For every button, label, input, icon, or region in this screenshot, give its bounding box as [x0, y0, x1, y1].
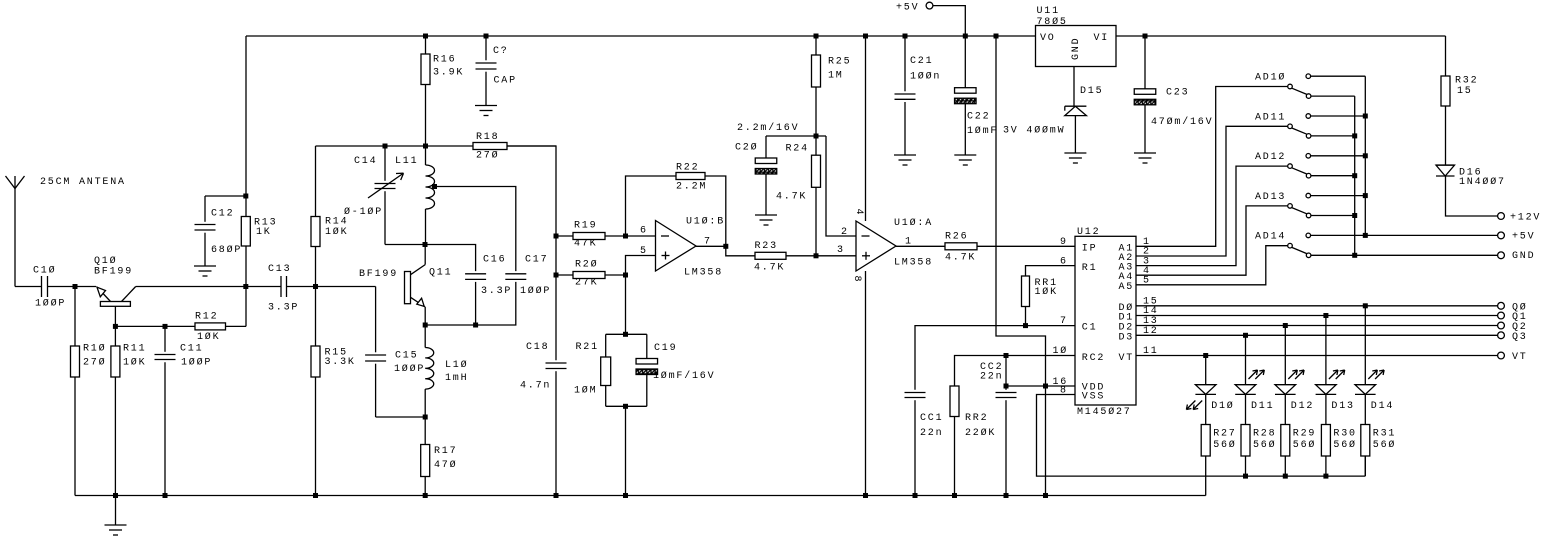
- capacitor C? (CAP): [485, 36, 487, 60]
- wire output row QØ: [1136, 305, 1498, 307]
- svg-text:1ØØP: 1ØØP: [394, 363, 425, 375]
- wire AD11 top contact to bus: [1311, 115, 1366, 117]
- svg-text:VO: VO: [1040, 33, 1056, 44]
- switch AD11 top contact: [1306, 114, 1311, 119]
- node rail/RR2: [952, 493, 957, 498]
- switch AD14 common pole: [1288, 243, 1293, 248]
- node bus2/AD11 bottom: [1352, 133, 1357, 138]
- antenna: [6, 176, 25, 189]
- resistor R11: [114, 345, 116, 347]
- wire C12 top: [205, 195, 246, 197]
- node junction rail/op-amp pin4: [863, 34, 868, 39]
- switch AD13 top contact: [1306, 193, 1311, 198]
- switch AD14 bottom contact: [1306, 253, 1311, 258]
- switch AD11 blade: [1292, 128, 1307, 134]
- node rail/C11: [163, 493, 168, 498]
- terminal +5V top circle: [926, 2, 933, 9]
- svg-text:22n: 22n: [980, 372, 1003, 383]
- svg-text:1ØM: 1ØM: [574, 385, 597, 397]
- wire AD14 bottom to GND row: [1311, 254, 1355, 256]
- svg-text:C2Ø: C2Ø: [735, 142, 758, 154]
- resistor R26: [945, 243, 977, 250]
- capacitor C19: [646, 334, 648, 358]
- node bus2/AD13 bottom: [1352, 213, 1357, 218]
- wire combo bottom: [606, 405, 647, 407]
- node row/LED-column junction 0: [1363, 303, 1368, 308]
- wire AD11 bottom contact to bus: [1311, 135, 1355, 137]
- node combo top junction: [623, 332, 628, 337]
- svg-text:LM358: LM358: [684, 268, 723, 279]
- svg-text:R16: R16: [433, 55, 456, 66]
- wire R12 to riser: [226, 325, 247, 327]
- wire gnd stem: [115, 496, 117, 526]
- capacitor C20: [765, 136, 767, 158]
- node row/LED-column junction 1: [1323, 313, 1328, 318]
- node C10/R10/Q10 junction: [73, 284, 78, 289]
- node VSS bus/R28: [1243, 474, 1248, 479]
- svg-text:C?: C?: [493, 46, 509, 57]
- resistor RR2: [950, 386, 959, 417]
- wire output jog down: [726, 246, 755, 256]
- svg-text:U1Ø:B: U1Ø:B: [686, 216, 725, 228]
- switch AD12 common pole: [1288, 164, 1293, 169]
- svg-text:56Ø: 56Ø: [1293, 439, 1316, 451]
- terminal QØ: [1498, 302, 1505, 309]
- node junction rail/C22: [963, 34, 968, 39]
- svg-text:R26: R26: [945, 232, 968, 243]
- svg-text:M145Ø27: M145Ø27: [1077, 406, 1132, 418]
- svg-text:C16: C16: [483, 254, 506, 265]
- wire C14 to collector node: [385, 244, 425, 246]
- svg-text:15: 15: [1457, 86, 1473, 97]
- switch AD11 common pole: [1288, 124, 1293, 129]
- svg-text:R1: R1: [1082, 263, 1098, 274]
- capacitor C14 trimmer: [384, 146, 386, 181]
- wire emitter row to C16/C17: [425, 282, 516, 325]
- svg-text:CAP: CAP: [494, 76, 517, 87]
- svg-text:Q11: Q11: [429, 268, 452, 279]
- terminal Q1: [1498, 312, 1505, 319]
- svg-text:LM358: LM358: [894, 258, 933, 269]
- switch AD13 blade: [1292, 208, 1307, 214]
- svg-text:D13: D13: [1331, 401, 1354, 412]
- wire output row Q1: [1136, 315, 1498, 317]
- wire ground rail: [75, 495, 1206, 497]
- switch AD12 bottom contact: [1306, 173, 1311, 178]
- svg-text:R31: R31: [1373, 429, 1396, 440]
- svg-text:RR2: RR2: [965, 413, 988, 424]
- switch AD1Ø bottom contact: [1306, 94, 1311, 99]
- node emitter/C16 row junction: [423, 323, 428, 328]
- svg-text:R19: R19: [574, 221, 597, 232]
- wire D10 to resistor: [1205, 394, 1207, 424]
- svg-text:VI: VI: [1094, 33, 1110, 44]
- resistor R22: [676, 173, 705, 180]
- wire y146 top of tank: [316, 145, 557, 147]
- svg-text:U1Ø:A: U1Ø:A: [894, 217, 933, 229]
- wire R12 row left: [115, 325, 195, 327]
- wire op-amp A pin4 to rail: [865, 36, 867, 221]
- svg-text:1ØmF/16V: 1ØmF/16V: [653, 370, 715, 382]
- wire +5V column down: [996, 36, 1046, 496]
- node junction rail/C21: [903, 34, 908, 39]
- wire U12 A5 to switch AD14: [1136, 246, 1288, 285]
- wire R18 right corner down: [507, 146, 556, 360]
- svg-text:47Øm/16V: 47Øm/16V: [1151, 116, 1213, 128]
- wire C10 to node: [48, 286, 97, 288]
- resistor R21: [605, 334, 607, 357]
- wire C1 pin row: [915, 326, 1075, 390]
- wire antenna down: [14, 189, 16, 287]
- svg-text:1M: 1M: [828, 71, 844, 82]
- node rail/R15: [313, 493, 318, 498]
- svg-text:5: 5: [1143, 276, 1151, 287]
- switch AD11 bottom contact: [1306, 134, 1311, 139]
- svg-text:R32: R32: [1455, 76, 1478, 87]
- svg-text:C19: C19: [654, 343, 677, 354]
- node L10/C15 junction: [423, 415, 428, 420]
- svg-text:56Ø: 56Ø: [1333, 439, 1356, 451]
- svg-text:C21: C21: [910, 56, 933, 67]
- node VDD rail junction: [1043, 493, 1048, 498]
- svg-text:27K: 27K: [575, 278, 598, 289]
- terminal +5V right: [1498, 232, 1505, 239]
- svg-text:D3: D3: [1119, 332, 1135, 343]
- node row/LED-column junction 3: [1243, 333, 1248, 338]
- capacitor C13: [280, 276, 282, 297]
- capacitor C21: [904, 36, 906, 91]
- svg-text:1ØmF: 1ØmF: [967, 125, 998, 137]
- wire L11 tap to C17: [435, 187, 516, 272]
- wire R1 pin to RR1: [1026, 266, 1076, 276]
- svg-text:1K: 1K: [256, 227, 272, 238]
- svg-text:VT: VT: [1512, 352, 1528, 363]
- op-amp U10:B: [656, 221, 697, 272]
- svg-text:47Ø: 47Ø: [434, 459, 457, 471]
- switch AD13 bottom contact: [1306, 213, 1311, 218]
- svg-text:27Ø: 27Ø: [83, 357, 106, 369]
- terminal Q2: [1498, 322, 1505, 329]
- led D11: [1235, 384, 1256, 386]
- wire antenna to C10: [15, 286, 42, 288]
- resistor R14: [315, 146, 317, 217]
- capacitor C16: [465, 273, 486, 275]
- wire AD12 top contact to bus: [1311, 155, 1366, 157]
- switch AD1Ø common pole: [1288, 84, 1293, 89]
- wire R20 node down to combo: [625, 275, 627, 334]
- wire D13 resistor to VSS bus: [1325, 456, 1327, 476]
- svg-text:9: 9: [1060, 237, 1068, 248]
- svg-text:L1Ø: L1Ø: [445, 359, 468, 371]
- svg-text:22n: 22n: [920, 428, 943, 439]
- wire combo top: [606, 333, 647, 335]
- svg-text:R21: R21: [576, 342, 599, 353]
- svg-text:R12: R12: [195, 312, 218, 323]
- svg-text:R22: R22: [676, 163, 699, 174]
- node output/feedback junction: [723, 244, 728, 249]
- svg-text:AD12: AD12: [1255, 152, 1286, 163]
- wire D13 column top: [1325, 316, 1327, 385]
- svg-text:1N4ØØ7: 1N4ØØ7: [1459, 176, 1506, 188]
- svg-text:Q3: Q3: [1512, 332, 1528, 343]
- svg-text:R28: R28: [1253, 429, 1276, 440]
- svg-text:68ØP: 68ØP: [211, 244, 242, 256]
- svg-text:A5: A5: [1119, 282, 1135, 293]
- svg-text:C1: C1: [1082, 323, 1098, 334]
- op-amp U10:A: [856, 221, 896, 271]
- inductor L11: [425, 146, 427, 165]
- wire C20/R24 node row: [766, 135, 826, 137]
- wire rail corner down to R13 node: [245, 36, 247, 196]
- wire R23 to pin3: [786, 255, 856, 257]
- svg-text:6: 6: [640, 226, 648, 237]
- capacitor C11: [164, 326, 166, 351]
- wire +5V terminal to rail: [933, 6, 965, 36]
- svg-text:5: 5: [640, 246, 648, 257]
- node bus/+5V row: [1363, 233, 1368, 238]
- node junction rail/R25: [814, 34, 819, 39]
- switch AD1Ø top contact: [1306, 74, 1311, 79]
- wire C15 to L10 bottom: [376, 416, 426, 418]
- node R25/R24 junction: [814, 134, 819, 139]
- svg-text:1ØK: 1ØK: [197, 331, 220, 343]
- svg-text:L11: L11: [395, 156, 418, 167]
- node row/LED-column junction 4: [1203, 353, 1208, 358]
- svg-text:27Ø: 27Ø: [476, 150, 499, 162]
- wire RR2 down: [954, 417, 956, 496]
- svg-text:C14: C14: [354, 156, 377, 167]
- node RC2/CC2 junction: [1004, 353, 1009, 358]
- switch AD14 top contact: [1306, 233, 1311, 238]
- capacitor C12: [204, 196, 206, 222]
- svg-text:U11: U11: [1037, 6, 1060, 17]
- node junction rail/+5V-column: [994, 34, 999, 39]
- wire D11 column top: [1245, 335, 1247, 384]
- svg-text:56Ø: 56Ø: [1213, 439, 1236, 451]
- svg-text:1ØØP: 1ØØP: [181, 357, 212, 369]
- switch AD13 common pole: [1288, 204, 1293, 209]
- wire U12 A4 to switch AD13: [1136, 206, 1288, 275]
- resistor R29: [1281, 425, 1290, 457]
- svg-text:C17: C17: [525, 254, 548, 265]
- svg-text:BF199: BF199: [359, 269, 398, 280]
- resistor R18: [473, 143, 507, 150]
- switch AD12 top contact: [1306, 154, 1311, 159]
- svg-text:1ØK: 1ØK: [325, 226, 348, 238]
- wire D10 resistor to ground rail: [1205, 456, 1207, 496]
- svg-text:D1Ø: D1Ø: [1211, 400, 1234, 412]
- wire R31 to VSS bus corner: [1364, 456, 1366, 476]
- svg-text:R1Ø: R1Ø: [83, 343, 106, 355]
- resistor R32: [1441, 76, 1450, 106]
- svg-text:C15: C15: [395, 351, 418, 362]
- svg-text:AD14: AD14: [1255, 232, 1286, 243]
- wire op-amp B output: [696, 245, 726, 247]
- svg-text:1ØØn: 1ØØn: [910, 71, 941, 83]
- transistor Q11 base bar: [405, 272, 411, 304]
- wire R26 to U12 IP: [977, 245, 1075, 247]
- wire switch top bus: [1364, 76, 1366, 235]
- wire output row VT: [1136, 355, 1498, 357]
- node RR1/C1 junction: [1023, 323, 1028, 328]
- resistor R28: [1241, 425, 1250, 457]
- wire Q10 collector to R13 node: [136, 286, 246, 288]
- wire AD1Ø top contact to bus: [1311, 75, 1366, 77]
- resistor R24: [815, 136, 817, 155]
- svg-text:D15: D15: [1080, 86, 1103, 97]
- node junction rail/C23: [1143, 34, 1148, 39]
- wire AD14 top to +5V row: [1311, 234, 1366, 236]
- wire pin2 from C20 node: [826, 136, 856, 236]
- svg-text:3.9K: 3.9K: [433, 68, 464, 79]
- node bus/AD13 top: [1363, 193, 1368, 198]
- led D12: [1275, 384, 1296, 386]
- capacitor C18: [546, 362, 567, 364]
- wire op-amp A pin8 to ground: [865, 271, 867, 496]
- wire AD13 bottom contact to bus: [1311, 215, 1355, 217]
- node rail/R17: [423, 493, 428, 498]
- node VSS bus/R30: [1323, 474, 1328, 479]
- capacitor CC1: [905, 392, 926, 394]
- node R20 left junction: [554, 273, 559, 278]
- svg-text:Q1Ø: Q1Ø: [94, 255, 117, 267]
- terminal Q3: [1498, 332, 1505, 339]
- svg-text:25CM ANTENA: 25CM ANTENA: [40, 177, 126, 188]
- wire node to C13: [246, 286, 281, 288]
- resistor R23: [755, 252, 786, 259]
- svg-text:C1Ø: C1Ø: [33, 265, 56, 277]
- wire VSS pin row: [1037, 395, 1366, 477]
- wire feedback right: [705, 176, 726, 246]
- resistor R31: [1361, 425, 1370, 457]
- wire output row Q3: [1136, 334, 1498, 336]
- svg-text:R24: R24: [786, 144, 809, 155]
- svg-text:3: 3: [837, 245, 845, 256]
- wire AD13 top contact to bus: [1311, 195, 1366, 197]
- wire D11 resistor to VSS bus: [1245, 456, 1247, 476]
- wire D11 to resistor: [1245, 394, 1247, 424]
- svg-text:8: 8: [851, 276, 862, 284]
- svg-text:+5V: +5V: [896, 2, 919, 13]
- wire U12 A3 to switch AD12: [1136, 166, 1288, 266]
- svg-text:3V 4ØØmW: 3V 4ØØmW: [1003, 125, 1065, 137]
- node rail/CC1: [913, 493, 918, 498]
- wire VDD pin row: [1006, 385, 1075, 387]
- node junction rail/R16: [423, 34, 428, 39]
- wire GND row to terminal: [1355, 254, 1498, 256]
- node rail/gnd-symbol junction: [113, 493, 118, 498]
- terminal +12V: [1498, 213, 1505, 220]
- node rail/combo: [623, 493, 628, 498]
- svg-text:D14: D14: [1371, 401, 1394, 412]
- svg-text:R23: R23: [755, 241, 778, 252]
- wire Q10 base down: [114, 306, 116, 346]
- transistor Q10 collector: [122, 287, 136, 302]
- ground main: [105, 524, 127, 526]
- wire U11 gnd pin: [1073, 67, 1075, 107]
- transistor Q10 emitter arrow: [97, 287, 111, 302]
- resistor R19: [556, 235, 573, 237]
- node row/LED-column junction 2: [1283, 323, 1288, 328]
- svg-text:3.3P: 3.3P: [481, 286, 512, 297]
- svg-text:47K: 47K: [574, 239, 597, 250]
- wire D14 column top: [1364, 306, 1366, 385]
- wire D13 to resistor: [1325, 394, 1327, 424]
- node bus2/GND row: [1352, 253, 1357, 258]
- capacitor CC2: [1005, 356, 1007, 390]
- node VSS bus/R29: [1283, 474, 1288, 479]
- wire Q11 emitter down: [424, 307, 426, 348]
- svg-text:3.3P: 3.3P: [268, 303, 299, 314]
- svg-text:AD13: AD13: [1255, 192, 1286, 203]
- resistor R12: [195, 323, 226, 330]
- wire D12 to resistor: [1284, 394, 1286, 424]
- switch AD12 blade: [1292, 168, 1307, 174]
- wire D10 column top: [1205, 356, 1207, 385]
- wire supply rail right of U11: [1116, 35, 1446, 37]
- svg-text:R14: R14: [325, 217, 348, 228]
- led D10: [1195, 384, 1216, 386]
- node L11 tap junction: [432, 184, 437, 189]
- terminal GND: [1498, 252, 1505, 259]
- svg-text:C12: C12: [211, 208, 234, 219]
- node R19/feedback junction: [623, 234, 628, 239]
- node R24/pin3 junction: [814, 253, 819, 258]
- capacitor C23: [1144, 36, 1146, 89]
- svg-text:C22: C22: [967, 112, 990, 123]
- svg-text:C23: C23: [1166, 88, 1189, 99]
- node L11/R16 junction: [423, 144, 428, 149]
- wire U12 A2 to switch AD11: [1136, 126, 1288, 256]
- svg-text:IP: IP: [1082, 244, 1098, 255]
- svg-text:78Ø5: 78Ø5: [1037, 16, 1068, 28]
- wire RR1 to C1 wire: [1025, 307, 1027, 326]
- led D14: [1355, 384, 1376, 386]
- led D13: [1316, 384, 1337, 386]
- svg-text:4.7K: 4.7K: [754, 263, 785, 274]
- svg-text:1mH: 1mH: [445, 373, 468, 384]
- svg-text:1ØK: 1ØK: [1035, 286, 1058, 298]
- node bus/AD11 top: [1363, 114, 1368, 119]
- svg-text:RC2: RC2: [1082, 353, 1105, 364]
- svg-text:R2Ø: R2Ø: [575, 259, 598, 271]
- svg-text:1ØK: 1ØK: [123, 357, 146, 369]
- svg-text:1ØØP: 1ØØP: [35, 298, 66, 310]
- resistor R10: [74, 287, 76, 347]
- node C12/R13 junction: [243, 194, 248, 199]
- svg-text:56Ø: 56Ø: [1253, 439, 1276, 451]
- resistor RR1: [1022, 276, 1030, 307]
- transistor Q11 emitter arrow: [411, 297, 426, 307]
- svg-text:GND: GND: [1512, 251, 1535, 262]
- ground C12: [194, 265, 216, 267]
- svg-text:4.7n: 4.7n: [520, 381, 551, 392]
- wire U12 A1 to switch AD1Ø: [1136, 87, 1288, 247]
- node base/R12 junction: [113, 324, 118, 329]
- wire +5V rail left segment: [246, 35, 1036, 37]
- svg-text:U12: U12: [1077, 227, 1100, 238]
- wire feedback loop: [626, 176, 677, 236]
- svg-text:R29: R29: [1293, 429, 1316, 440]
- svg-text:BF199: BF199: [94, 267, 133, 278]
- svg-text:Ø-1ØP: Ø-1ØP: [344, 206, 383, 218]
- switch AD14 blade: [1292, 247, 1307, 253]
- svg-text:+5V: +5V: [1512, 232, 1535, 243]
- svg-text:2: 2: [841, 227, 849, 238]
- resistor R13: [245, 196, 247, 217]
- wire pin5 jog: [626, 256, 656, 276]
- capacitor C10: [41, 276, 43, 297]
